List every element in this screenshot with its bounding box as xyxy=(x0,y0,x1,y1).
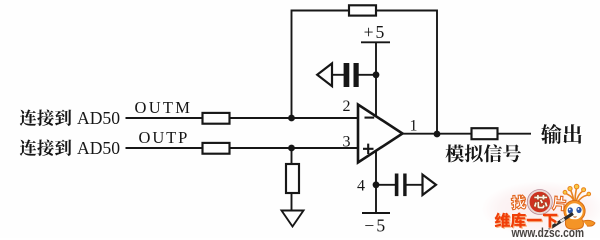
svg-text:+5: +5 xyxy=(364,22,387,42)
resistor R5 output xyxy=(472,128,498,139)
wire op-amp output to OUT xyxy=(403,133,532,135)
watermark mascot crown bulbs xyxy=(563,184,591,196)
resistor R1 feedback xyxy=(349,5,376,15)
wire +5 rail down into op-amp top xyxy=(375,42,377,116)
svg-text:AD50: AD50 xyxy=(77,108,120,128)
wire C1 right plate to +5 vertical xyxy=(359,74,377,76)
watermark mascot tail xyxy=(583,220,595,226)
wire feedback top loop: left vertical, top horizontal, right vertical xyxy=(292,11,438,135)
wire OUTM input line to pin 2 xyxy=(126,117,359,119)
watermark mascot crown stalks xyxy=(566,188,588,203)
svg-text:1: 1 xyxy=(410,117,418,134)
svg-text:−5: −5 xyxy=(364,215,387,235)
op-amp minus sign (pin 2) xyxy=(365,117,375,119)
wire C1 to +5 node xyxy=(332,74,344,76)
label 模拟信号 (analog signal) xyxy=(446,144,521,162)
ground symbol xyxy=(282,211,304,227)
watermark mascot pen xyxy=(551,214,573,228)
svg-text:OUTM: OUTM xyxy=(135,98,193,117)
capacitor C2 plates xyxy=(395,174,407,197)
wire C2 right plate to arrow xyxy=(406,184,422,186)
op-amp plus sign (pin 3) xyxy=(363,144,374,154)
wire R4 to ground xyxy=(291,148,293,211)
label 连接到 line 2 xyxy=(20,139,71,155)
svg-text:4: 4 xyxy=(357,178,365,195)
svg-text:AD50: AD50 xyxy=(77,138,120,158)
arrow connector at C2 (points right) xyxy=(423,175,437,195)
watermark mascot eyes xyxy=(568,207,573,213)
label 连接到 line 1 xyxy=(20,109,71,125)
wire pin4 node to C2 xyxy=(376,184,395,186)
node junction +5/C1 xyxy=(373,71,380,78)
svg-text:OUTP: OUTP xyxy=(139,128,190,147)
resistor R2 on OUTM xyxy=(203,113,230,124)
svg-text:www.dzsc.com: www.dzsc.com xyxy=(511,225,584,238)
watermark 片 outlined xyxy=(552,196,566,211)
node junction OUTP/R4 xyxy=(288,145,295,152)
+5 power rail bar xyxy=(361,41,390,43)
label 输出 (output) xyxy=(541,124,582,144)
op-amp U1 triangle xyxy=(358,105,403,163)
watermark 维库一下 xyxy=(495,212,558,227)
arrow connector at C1 (points left) xyxy=(317,63,332,86)
capacitor C1 plates xyxy=(344,63,359,87)
node junction output/feedback xyxy=(434,131,441,138)
watermark 芯 on circle xyxy=(534,195,548,209)
node junction OUTM/feedback xyxy=(288,115,295,122)
watermark 找 outlined xyxy=(511,195,526,210)
wire OUTP input line to pin 3 xyxy=(126,147,359,149)
svg-text:2: 2 xyxy=(343,98,351,115)
wire op-amp pin 4 down to -5 rail xyxy=(375,150,377,213)
resistor R3 on OUTP xyxy=(203,143,230,154)
resistor R4 to ground xyxy=(286,164,299,193)
watermark mascot head xyxy=(564,200,585,221)
watermark 维库一下 shadow xyxy=(496,213,559,228)
-5 power rail bar xyxy=(362,212,390,214)
svg-text:3: 3 xyxy=(343,133,351,150)
watermark pink haze xyxy=(0,0,1,1)
node junction pin4/C2 xyxy=(373,181,380,188)
watermark mascot mouth xyxy=(574,216,577,219)
watermark mascot body xyxy=(565,219,583,229)
watermark magnifier red circle xyxy=(529,191,552,214)
